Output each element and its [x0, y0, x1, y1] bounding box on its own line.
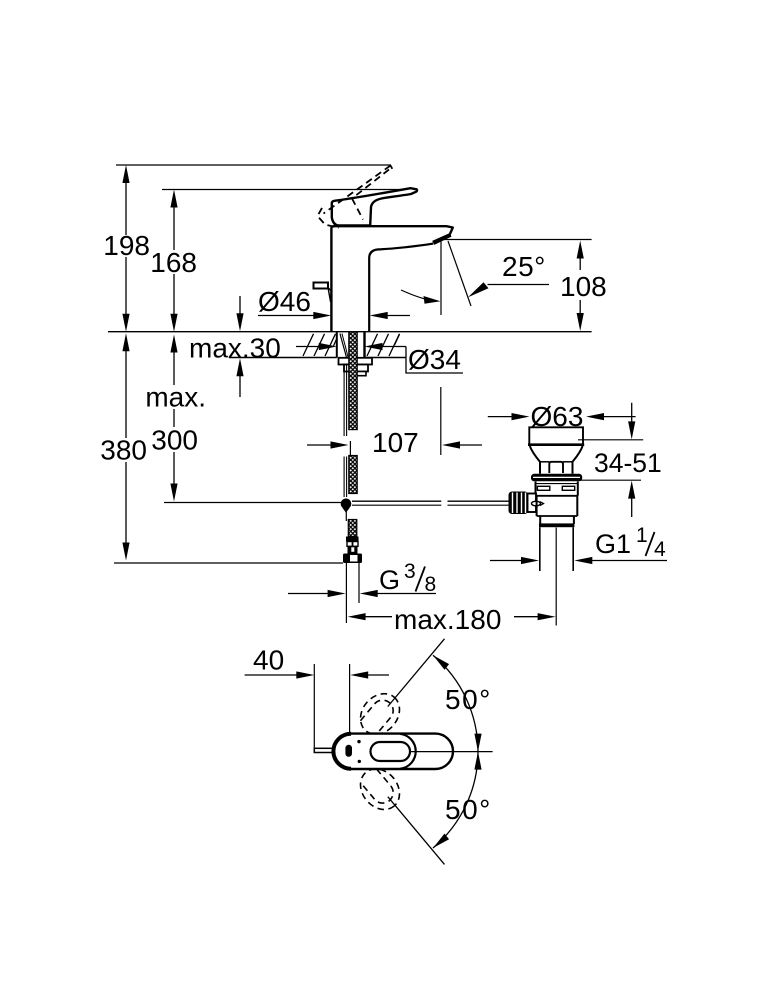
pop-up rod tee	[341, 499, 352, 510]
dimension G1 1/4	[490, 560, 523, 562]
dimension max.30 arrows	[236, 296, 243, 397]
dimension 108 vertical	[577, 241, 584, 332]
plug cup	[529, 427, 583, 445]
svg-text:Ø46: Ø46	[258, 286, 311, 317]
svg-text:380: 380	[100, 435, 147, 466]
neck shoulder	[540, 461, 549, 463]
svg-text:max.: max.	[145, 382, 206, 413]
mounting hole right edge	[363, 332, 365, 358]
svg-text:max.180: max.180	[394, 604, 501, 635]
swivel ray upper	[388, 639, 445, 707]
lever solid	[332, 188, 417, 225]
dimension O34	[296, 346, 320, 348]
dim line 198 top reference	[116, 164, 391, 166]
horizontal pop-up rod	[352, 500, 441, 502]
dimension G3/8	[288, 593, 329, 595]
dimension 380 vertical	[122, 333, 129, 560]
svg-text:40: 40	[253, 645, 284, 676]
svg-text:198: 198	[103, 230, 150, 261]
svg-text:8: 8	[425, 573, 437, 596]
svg-text:4: 4	[654, 538, 666, 561]
lever tail in top view	[314, 748, 334, 752]
handle pill	[345, 745, 352, 757]
lever dashed (raised position)	[318, 166, 393, 229]
svg-text:1: 1	[636, 524, 648, 547]
spout height reference line	[442, 239, 592, 241]
tailpipe	[539, 527, 541, 571]
hose below tee	[345, 509, 347, 521]
G3/8 fitting	[346, 537, 359, 542]
body stadium	[333, 734, 453, 769]
svg-text:25°: 25°	[502, 251, 546, 282]
380 bottom extension line	[114, 562, 343, 564]
mounting hole left edge	[336, 332, 338, 358]
dim line 168 top reference	[162, 189, 417, 191]
valve body seam arc	[400, 734, 416, 769]
left cap thick stroke	[333, 734, 351, 769]
countertop line	[108, 331, 592, 333]
threaded shank braided hose upper	[349, 332, 357, 430]
knurled adjusting nut	[509, 492, 529, 515]
svg-text:50°: 50°	[445, 794, 492, 825]
counter hatching left	[303, 334, 337, 356]
cup taper	[530, 446, 540, 474]
counter bottom line right	[366, 357, 407, 359]
pull rod knob	[314, 283, 329, 289]
dimension O63	[488, 416, 513, 418]
svg-text:3: 3	[404, 560, 416, 583]
waste body middle	[537, 496, 578, 516]
drain centerline	[555, 528, 557, 626]
svg-text:300: 300	[151, 425, 198, 456]
dimension 34-51	[578, 439, 643, 441]
svg-text:107: 107	[372, 427, 419, 458]
dimension max.180	[348, 613, 366, 620]
svg-text:Ø34: Ø34	[408, 344, 461, 375]
top view centerline	[411, 751, 493, 753]
plug stem knob	[549, 462, 563, 473]
lift rod upper	[343, 365, 345, 437]
lift rod middle	[343, 457, 345, 498]
basin rim flange	[531, 474, 582, 482]
40 extension lines	[313, 664, 315, 748]
svg-text:168: 168	[150, 247, 197, 278]
svg-text:Ø63: Ø63	[531, 401, 584, 432]
dimension 198 vertical	[122, 165, 129, 332]
swivel ray lower	[388, 797, 445, 865]
faucet body outline	[331, 226, 452, 332]
max.300 bottom extension line	[164, 502, 341, 504]
swivel arc upper	[433, 655, 478, 751]
lower nut	[540, 516, 574, 524]
svg-text:G1: G1	[595, 529, 631, 559]
dimension 107	[307, 444, 332, 446]
aerator	[432, 233, 451, 245]
25 degree annotation	[440, 241, 442, 315]
screw dots	[357, 740, 360, 743]
spout slot	[371, 742, 411, 761]
svg-text:34-51: 34-51	[594, 448, 662, 478]
dashed handle position lower	[352, 761, 407, 817]
svg-text:max.30: max.30	[189, 333, 281, 364]
braided hose middle	[349, 456, 357, 494]
counter hatching right	[367, 334, 400, 356]
dashed handle position upper	[352, 686, 407, 742]
pull rod curve in hole	[340, 334, 346, 358]
svg-text:50°: 50°	[445, 684, 492, 715]
svg-text:G: G	[379, 565, 400, 595]
faucet spout underside	[369, 244, 433, 332]
svg-text:108: 108	[560, 271, 607, 302]
ball rod end	[532, 501, 541, 506]
waste body upper	[536, 482, 578, 496]
counter bottom line left	[229, 357, 337, 359]
dimension 168 vertical	[170, 190, 177, 332]
dimension max.300 vertical	[170, 335, 177, 502]
swivel arc lower	[433, 752, 478, 848]
rod boss	[528, 494, 537, 513]
mounting flange below counter	[339, 358, 373, 365]
G3/8 extension lines	[345, 563, 347, 623]
